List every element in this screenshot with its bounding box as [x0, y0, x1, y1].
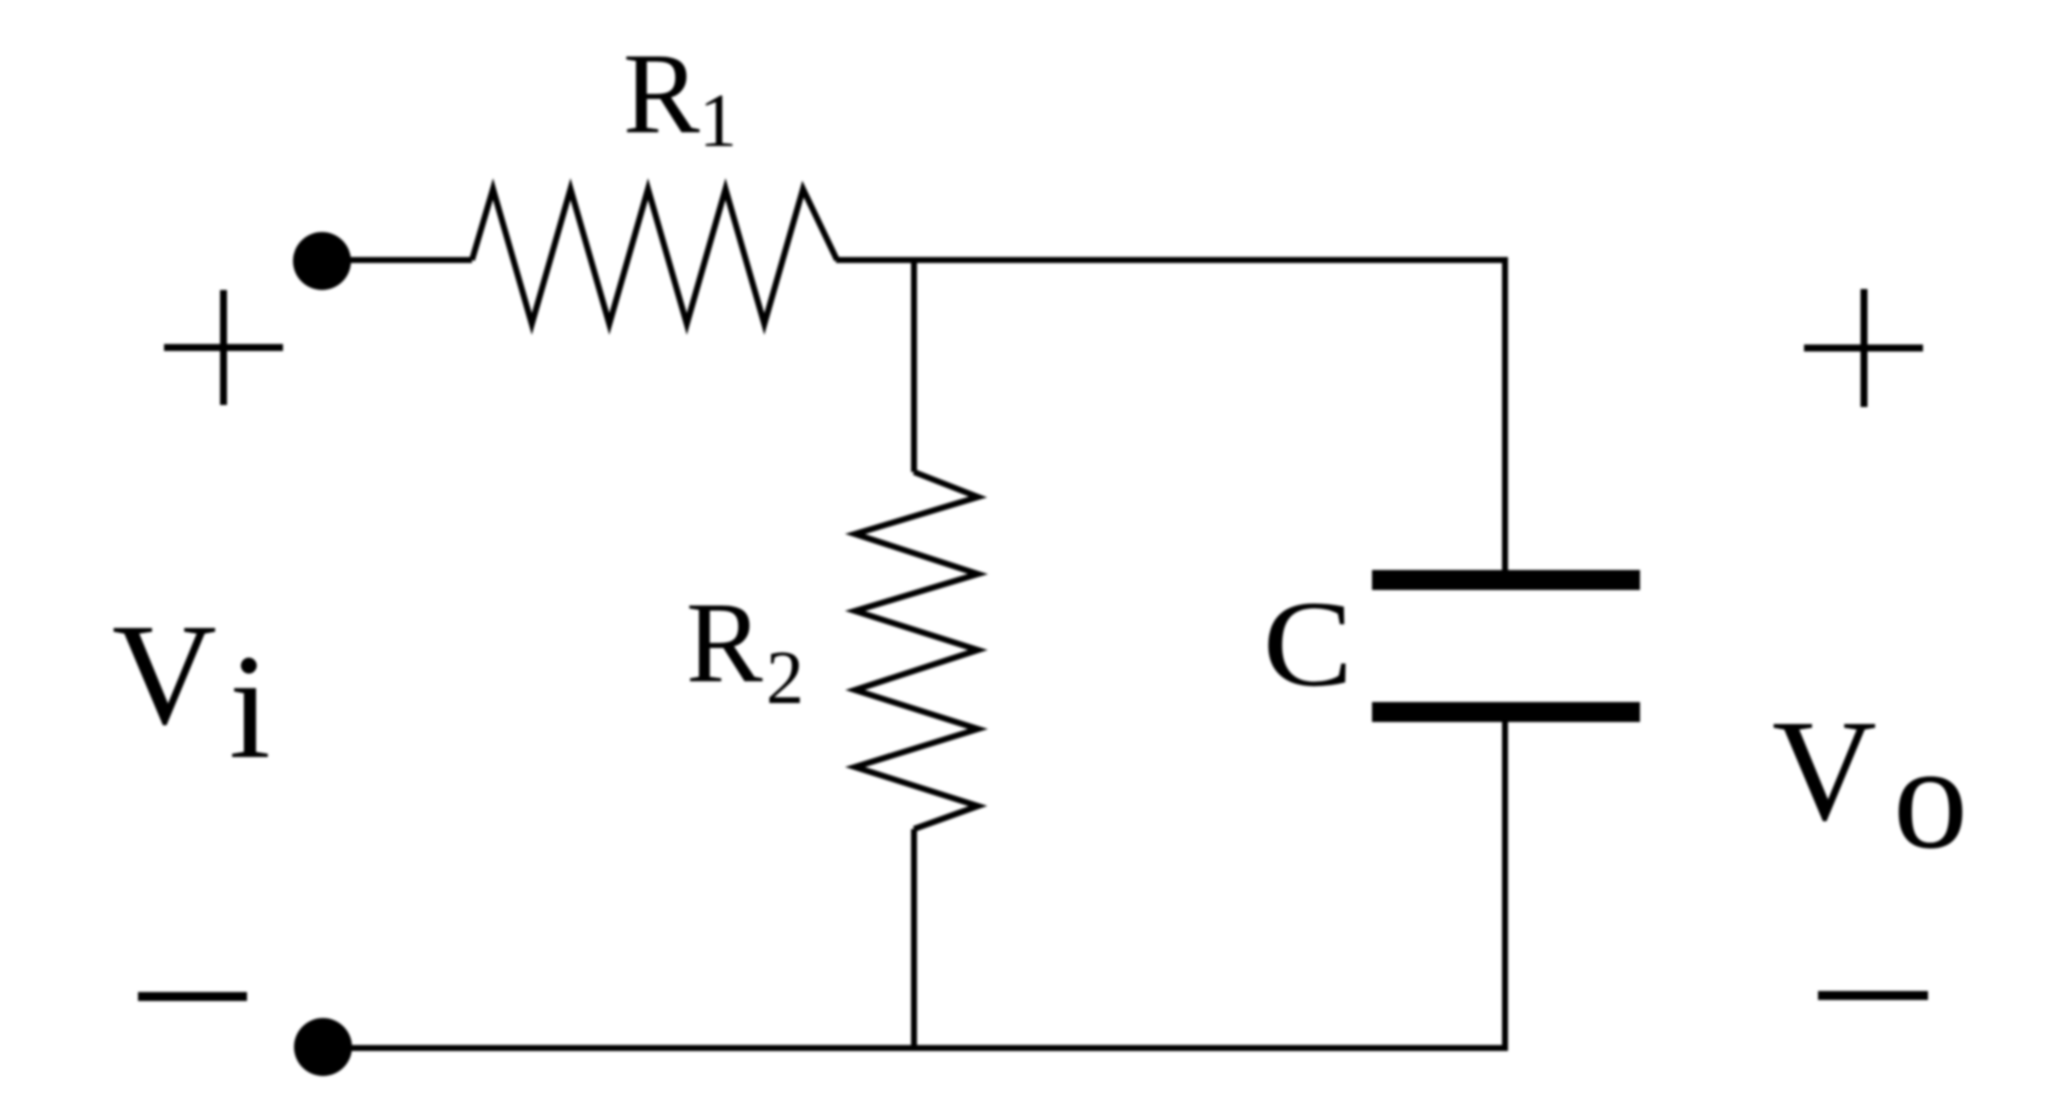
- svg-text:R: R: [686, 579, 763, 706]
- node B : input bottom terminal dot: [294, 1018, 352, 1076]
- svg-text:R: R: [623, 30, 700, 157]
- wire : R2 bottom vertical down to bottom wire: [911, 829, 917, 1048]
- wire : top from R1 to top-right corner: [836, 257, 1505, 263]
- svg-text:i: i: [229, 624, 271, 790]
- node A : input top terminal dot: [293, 232, 351, 290]
- wire : bottom return wire: [350, 1045, 1508, 1051]
- wire : top-left from terminal to R1: [349, 257, 472, 263]
- svg-text:o: o: [1893, 714, 1968, 880]
- capacitor C top plate: [1372, 570, 1640, 590]
- svg-text:1: 1: [699, 79, 737, 163]
- resistor R1: [472, 189, 837, 324]
- plus sign : input polarity: [164, 290, 283, 405]
- capacitor C bottom plate: [1372, 702, 1640, 722]
- minus sign : output polarity: [1818, 991, 1928, 1000]
- wire : right vertical from top-right corner down to capacitor: [1502, 257, 1508, 570]
- svg-text:V: V: [112, 595, 217, 755]
- wire : from capacitor bottom plate down to bottom wire: [1502, 722, 1508, 1048]
- plus sign : output polarity: [1804, 289, 1923, 407]
- svg-text:C: C: [1263, 576, 1353, 712]
- resistor R2: [855, 472, 978, 829]
- minus sign : input polarity: [138, 992, 247, 1001]
- wire : R2 branch vertical from top wire down to R2: [911, 260, 917, 472]
- svg-text:V: V: [1772, 691, 1877, 851]
- svg-text:2: 2: [766, 636, 804, 720]
